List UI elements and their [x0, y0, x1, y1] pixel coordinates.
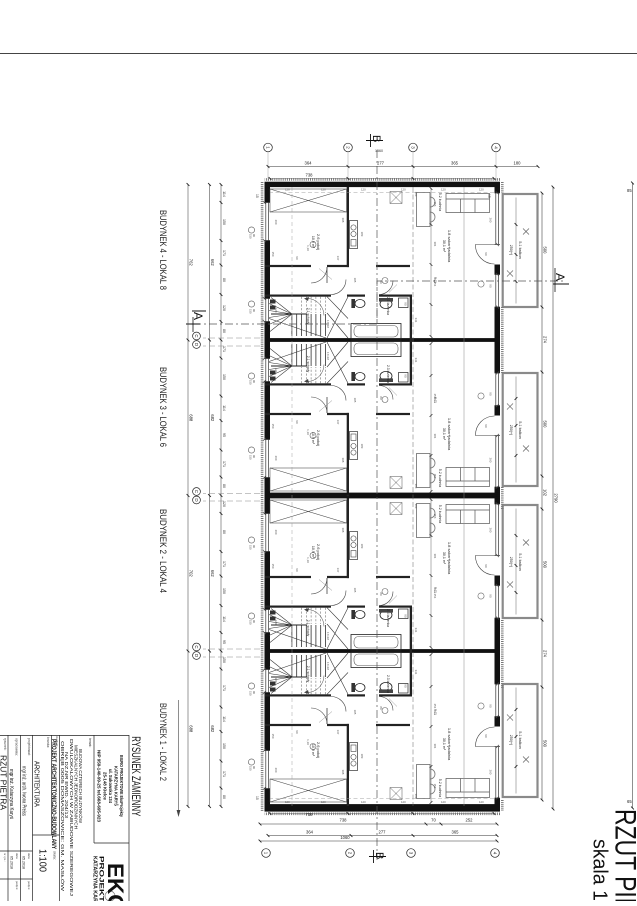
svg-text:120: 120 [222, 501, 226, 507]
svg-text:90: 90 [484, 734, 488, 738]
svg-text:105: 105 [353, 588, 357, 593]
gable inner dash lines [270, 798, 494, 800]
svg-text:branża:: branża: [46, 737, 50, 748]
svg-text:mgr inż. Katarzyna Karyś: mgr inż. Katarzyna Karyś [8, 769, 14, 819]
svg-text:15: 15 [255, 796, 259, 800]
svg-text:120: 120 [321, 800, 326, 804]
svg-text:171: 171 [222, 461, 226, 467]
svg-text:90: 90 [489, 284, 493, 288]
svg-text:2.1 schody: 2.1 schody [306, 666, 310, 683]
svg-text:163: 163 [414, 192, 418, 197]
svg-text:90: 90 [252, 545, 256, 548]
svg-text:171: 171 [222, 771, 226, 777]
svg-text:150: 150 [249, 380, 253, 385]
svg-text:10,9 m²: 10,9 m² [311, 432, 315, 445]
svg-text:250(+): 250(+) [509, 245, 513, 256]
svg-text:90: 90 [484, 424, 488, 428]
svg-text:EKO: EKO [103, 863, 128, 901]
svg-text:277: 277 [379, 829, 387, 834]
svg-text:250(+): 250(+) [509, 735, 513, 746]
svg-text:95: 95 [222, 433, 226, 437]
svg-text:5.1 balkon: 5.1 balkon [518, 421, 522, 439]
svg-text:05.2018: 05.2018 [22, 856, 26, 869]
svg-text:120: 120 [361, 188, 366, 192]
svg-text:150: 150 [222, 657, 226, 663]
svg-text:150: 150 [271, 564, 275, 569]
svg-text:137: 137 [336, 568, 340, 573]
svg-text:2.3 łazienka: 2.3 łazienka [386, 609, 390, 627]
svg-text:90: 90 [404, 684, 408, 688]
svg-text:163: 163 [414, 504, 418, 509]
svg-text:1060: 1060 [340, 835, 350, 840]
svg-text:662: 662 [210, 570, 215, 578]
svg-text:10,9 m²: 10,9 m² [311, 744, 315, 757]
svg-text:1,10: 1,10 [306, 739, 310, 745]
grid bubble pair CD wall1 [193, 332, 201, 340]
gable wall left [265, 182, 501, 187]
svg-text:1,10: 1,10 [306, 245, 310, 251]
svg-text:150: 150 [249, 455, 253, 460]
svg-text:podpis:: podpis: [15, 881, 19, 890]
svg-text:738: 738 [306, 172, 314, 177]
grid bubble pair wall3 [193, 643, 201, 651]
arrow leader bottom right [178, 700, 180, 814]
svg-text:1:100: 1:100 [37, 849, 49, 872]
svg-text:114: 114 [222, 405, 226, 411]
dim chain inside right gable [270, 813, 494, 815]
svg-text:2.6 pokój: 2.6 pokój [316, 544, 321, 560]
grid bubble pair wall2 [193, 488, 201, 496]
svg-text:150: 150 [271, 252, 275, 257]
svg-text:5.1 balkon: 5.1 balkon [518, 731, 522, 749]
svg-text:252: 252 [466, 818, 474, 823]
svg-text:308: 308 [341, 528, 345, 533]
insulation hatch bands [262, 179, 502, 813]
svg-text:10,9 m²: 10,9 m² [311, 236, 315, 249]
svg-text:RYSUNEK ZAMIENNY: RYSUNEK ZAMIENNY [129, 736, 141, 816]
svg-text:80: 80 [379, 592, 383, 596]
svg-text:682: 682 [210, 414, 215, 422]
svg-text:254: 254 [433, 282, 437, 287]
svg-text:70: 70 [431, 818, 436, 823]
svg-text:384: 384 [433, 242, 437, 247]
svg-text:temat:: temat: [88, 738, 92, 747]
svg-text:mgr inż. arch. Iwona Preiss: mgr inż. arch. Iwona Preiss [21, 766, 27, 816]
svg-text:662: 662 [210, 259, 215, 267]
svg-text:365: 365 [451, 160, 459, 165]
svg-text:120: 120 [274, 620, 278, 625]
svg-text:data:: data: [15, 853, 19, 859]
svg-text:90: 90 [484, 252, 488, 256]
roof line dash [412, 187, 414, 806]
svg-text:90: 90 [404, 374, 408, 378]
grid dash connectors below building [203, 338, 260, 657]
svg-text:260: 260 [489, 770, 493, 775]
svg-text:341: 341 [414, 670, 418, 675]
svg-text:120: 120 [285, 188, 290, 192]
svg-text:308: 308 [341, 458, 345, 463]
svg-text:260: 260 [274, 768, 278, 773]
svg-text:274: 274 [542, 336, 547, 344]
svg-text:105: 105 [353, 278, 357, 283]
svg-text:90: 90 [252, 309, 256, 312]
svg-text:90: 90 [404, 614, 408, 618]
svg-text:RZUT PIĘTRA: RZUT PIĘTRA [0, 755, 8, 811]
svg-text:137: 137 [336, 256, 340, 261]
svg-text:384: 384 [433, 554, 437, 559]
svg-text:341: 341 [414, 628, 418, 633]
svg-text:90: 90 [295, 420, 299, 424]
svg-text:1.8 salon+jadalnia: 1.8 salon+jadalnia [447, 230, 452, 263]
svg-text:90: 90 [489, 594, 493, 598]
svg-text:BUDYNEK 1 - LOKAL 2: BUDYNEK 1 - LOKAL 2 [157, 703, 168, 781]
gable wall right [265, 806, 501, 812]
svg-text:738: 738 [306, 812, 314, 817]
svg-text:260: 260 [274, 530, 278, 535]
svg-text:137: 137 [336, 420, 340, 425]
svg-text:80: 80 [222, 484, 226, 488]
svg-text:114: 114 [222, 191, 226, 197]
svg-text:150: 150 [249, 766, 253, 771]
svg-text:80: 80 [222, 530, 226, 534]
svg-text:120: 120 [285, 800, 290, 804]
svg-text:2.3 łazienka: 2.3 łazienka [386, 365, 390, 383]
svg-text:80: 80 [379, 280, 383, 284]
svg-text:120: 120 [479, 188, 484, 192]
svg-text:95: 95 [222, 640, 226, 644]
svg-text:2.6 pokój: 2.6 pokój [316, 234, 321, 250]
svg-text:90: 90 [404, 302, 408, 306]
svg-text:90: 90 [252, 455, 256, 458]
svg-text:skala:: skala: [53, 851, 57, 860]
room labels unit at 340.0 mirrored [271, 352, 522, 489]
svg-text:1,10: 1,10 [306, 557, 310, 563]
svg-text:1.8 salon+jadalnia: 1.8 salon+jadalnia [447, 728, 452, 761]
svg-text:171: 171 [222, 685, 226, 691]
svg-text:1.8 salon+jadalnia: 1.8 salon+jadalnia [447, 418, 452, 451]
svg-text:762: 762 [188, 259, 193, 267]
svg-text:274: 274 [542, 650, 547, 658]
svg-text:65: 65 [627, 799, 632, 804]
svg-text:688: 688 [188, 414, 193, 422]
unit BUDYNEK2 lokal4 [263, 496, 538, 652]
grid bubbles left [264, 143, 273, 152]
svg-text:90: 90 [489, 704, 493, 708]
svg-text:ARCHITEKTURA: ARCHITEKTURA [33, 761, 40, 807]
svg-text:120: 120 [441, 800, 446, 804]
svg-text:364: 364 [305, 160, 313, 165]
svg-text:189: 189 [360, 754, 364, 759]
svg-text:171: 171 [222, 346, 226, 352]
svg-text:500: 500 [542, 247, 547, 255]
svg-text:1,10: 1,10 [306, 429, 310, 435]
svg-text:260: 260 [274, 220, 278, 225]
svg-text:254: 254 [433, 594, 437, 599]
svg-text:1.8 salon+jadalnia: 1.8 salon+jadalnia [447, 542, 452, 575]
svg-text:OBRĘB 0005 DOMASZOWICE: GM. MA: OBRĘB 0005 DOMASZOWICE: GM. MASŁÓW [59, 741, 66, 892]
svg-text:250(+): 250(+) [509, 557, 513, 568]
svg-text:150: 150 [249, 309, 253, 314]
svg-text:180: 180 [514, 160, 522, 165]
svg-text:150: 150 [222, 219, 226, 225]
svg-text:BUDYNEK 4 - LOKAL 8: BUDYNEK 4 - LOKAL 8 [157, 210, 168, 290]
svg-text:RZUT PIĘTRA: RZUT PIĘTRA [609, 809, 637, 901]
svg-text:15: 15 [255, 194, 259, 198]
svg-text:500: 500 [542, 421, 547, 429]
svg-text:120: 120 [361, 800, 366, 804]
svg-text:2.1 schody: 2.1 schody [306, 356, 310, 373]
svg-text:NIP 959-140-99-25 tel.668-695: NIP 959-140-99-25 tel.668-695-923 [97, 750, 102, 823]
title block frame [0, 735, 129, 901]
svg-text:05.2018: 05.2018 [10, 856, 14, 869]
svg-text:projektował:: projektował: [27, 738, 31, 756]
office info [97, 750, 125, 823]
svg-text:90: 90 [484, 564, 488, 568]
svg-text:80: 80 [379, 706, 383, 710]
unit BUDYNEK3 lokal6 [263, 340, 538, 496]
dim chain bottom total [187, 185, 189, 807]
svg-text:5.2 kuchnia: 5.2 kuchnia [438, 193, 442, 211]
svg-text:2.6 pokój: 2.6 pokój [316, 742, 321, 758]
svg-text:150: 150 [271, 734, 275, 739]
svg-text:15: 15 [487, 194, 491, 198]
svg-text:80: 80 [379, 396, 383, 400]
room labels unit at 495.5 [271, 504, 522, 641]
svg-text:308: 308 [341, 770, 345, 775]
dim chain outermost [632, 183, 634, 808]
svg-text:171: 171 [222, 561, 226, 567]
svg-text:1560: 1560 [375, 149, 383, 153]
svg-text:150: 150 [222, 743, 226, 749]
svg-text:384: 384 [433, 434, 437, 439]
svg-text:KATARZYNA KARYŚ: KATARZYNA KARYŚ [114, 766, 119, 806]
svg-text:skala 1:100: skala 1:100 [589, 839, 611, 901]
svg-text:941: 941 [433, 587, 437, 593]
svg-text:podpis:: podpis: [27, 881, 31, 890]
unit BUDYNEK4 lokal8 [263, 185, 538, 341]
svg-text:171: 171 [222, 250, 226, 256]
svg-text:120: 120 [441, 188, 446, 192]
expansion joint middle wall [265, 493, 501, 495]
svg-text:189: 189 [360, 544, 364, 549]
svg-text:2.1 schody: 2.1 schody [306, 620, 310, 637]
svg-text:120: 120 [321, 188, 326, 192]
logo emblem circle [105, 891, 115, 901]
dim chain bottom mid [209, 185, 211, 807]
svg-text:260: 260 [489, 528, 493, 533]
svg-text:120: 120 [274, 368, 278, 373]
svg-text:260: 260 [274, 456, 278, 461]
svg-text:data:: data: [27, 853, 31, 859]
roof line 1.90m solid [463, 187, 465, 806]
room labels unit at 184.5 [271, 192, 522, 329]
svg-text:90: 90 [252, 380, 256, 383]
svg-text:5.1 balkon: 5.1 balkon [518, 553, 522, 571]
grid bubbles right [262, 849, 271, 858]
svg-text:80: 80 [222, 329, 226, 333]
svg-text:10,9 m²: 10,9 m² [311, 546, 315, 559]
svg-text:90: 90 [489, 392, 493, 396]
svg-text:5.2 kuchnia: 5.2 kuchnia [438, 779, 442, 797]
dim chain right mid [268, 835, 497, 837]
svg-text:105: 105 [353, 710, 357, 715]
svg-text:5.1 balkon: 5.1 balkon [518, 241, 522, 259]
room labels unit at 651.0 mirrored [271, 662, 522, 799]
svg-text:BUDYNEK 3 - LOKAL 6: BUDYNEK 3 - LOKAL 6 [157, 367, 168, 447]
svg-text:5.2 kuchnia: 5.2 kuchnia [438, 505, 442, 523]
svg-text:80: 80 [222, 795, 226, 799]
svg-text:365: 365 [452, 829, 460, 834]
svg-text:114: 114 [222, 716, 226, 722]
svg-text:688: 688 [188, 725, 193, 733]
svg-text:17x18: 17x18 [326, 320, 330, 328]
svg-text:150: 150 [249, 691, 253, 696]
roof line bedroom dash [291, 187, 293, 806]
svg-text:150: 150 [222, 588, 226, 594]
svg-text:156: 156 [433, 784, 437, 789]
svg-text:120: 120 [401, 800, 406, 804]
svg-text:30,1 m²: 30,1 m² [442, 552, 446, 565]
svg-text:17x18: 17x18 [326, 662, 330, 670]
svg-text:150: 150 [249, 234, 253, 239]
svg-text:90: 90 [295, 256, 299, 260]
svg-text:500: 500 [542, 561, 547, 569]
svg-text:250(+): 250(+) [509, 425, 513, 436]
paper fold line [0, 53, 637, 55]
svg-text:150: 150 [271, 424, 275, 429]
svg-text:500: 500 [542, 740, 547, 748]
svg-text:90: 90 [252, 234, 256, 237]
svg-text:90: 90 [295, 730, 299, 734]
svg-text:90: 90 [252, 691, 256, 694]
svg-text:ul. Sukowska 134: ul. Sukowska 134 [108, 769, 113, 804]
svg-text:KATARZYNA KAR: KATARZYNA KAR [92, 856, 98, 901]
svg-text:150: 150 [249, 620, 253, 625]
svg-text:254: 254 [433, 704, 437, 709]
svg-text:120: 120 [274, 678, 278, 683]
dim chain right total [260, 840, 497, 842]
svg-text:189: 189 [360, 444, 364, 449]
svg-text:B: B [370, 135, 382, 142]
svg-text:277: 277 [377, 160, 385, 165]
svg-text:5.2 kuchnia: 5.2 kuchnia [438, 469, 442, 487]
dim chain top total [552, 187, 554, 809]
svg-text:364: 364 [306, 829, 314, 834]
svg-text:120: 120 [222, 305, 226, 311]
svg-text:189: 189 [360, 232, 364, 237]
svg-text:90: 90 [252, 766, 256, 769]
svg-text:90: 90 [252, 620, 256, 623]
svg-text:opracowała:: opracowała: [15, 738, 19, 756]
svg-text:2790: 2790 [553, 493, 558, 503]
unit BUDYNEK1 lokal2 [263, 651, 538, 807]
svg-text:163: 163 [414, 794, 418, 799]
svg-text:120: 120 [274, 308, 278, 313]
svg-text:137: 137 [336, 730, 340, 735]
svg-text:2.6 pokój: 2.6 pokój [316, 430, 321, 446]
svg-text:PROJEKT ARCHITEKTONICZNO-BUDOW: PROJEKT ARCHITEKTONICZNO-BUDOWLANY [50, 739, 57, 850]
svg-text:85: 85 [627, 188, 632, 193]
dim chain inside left gable [270, 178, 494, 180]
svg-text:114: 114 [222, 616, 226, 622]
svg-text:341: 341 [414, 358, 418, 363]
svg-text:941: 941 [433, 709, 437, 715]
svg-text:682: 682 [210, 725, 215, 733]
svg-text:30,1 m²: 30,1 m² [442, 428, 446, 441]
svg-text:254: 254 [433, 394, 437, 399]
svg-text:BIURO PROJEKTOWE EkoProjekty: BIURO PROJEKTOWE EkoProjekty [119, 755, 124, 817]
svg-text:156: 156 [433, 514, 437, 519]
section line A-A stepped [193, 281, 565, 324]
svg-text:156: 156 [433, 202, 437, 207]
svg-text:102: 102 [542, 489, 547, 497]
svg-text:PROJEKT: PROJEKT [98, 856, 105, 901]
svg-text:30,1 m²: 30,1 m² [442, 240, 446, 253]
dim chain bottom detail [220, 185, 222, 807]
section line B-B [376, 150, 378, 860]
svg-text:738: 738 [340, 818, 348, 823]
svg-text:80: 80 [222, 278, 226, 282]
dim chain right inner [260, 823, 497, 825]
svg-text:rysunek:: rysunek: [3, 738, 7, 751]
svg-text:308: 308 [341, 218, 345, 223]
svg-text:260: 260 [489, 458, 493, 463]
svg-text:2.3 łazienka: 2.3 łazienka [386, 675, 390, 693]
svg-text:BUDYNEK 2 - LOKAL 4: BUDYNEK 2 - LOKAL 4 [157, 509, 168, 594]
dim chain top balconies [541, 193, 543, 800]
svg-text:2.1 schody: 2.1 schody [306, 308, 310, 325]
svg-text:260: 260 [489, 218, 493, 223]
svg-text:25-148 Kielce: 25-148 Kielce [103, 772, 108, 801]
svg-text:702: 702 [188, 570, 193, 578]
svg-text:150: 150 [222, 374, 226, 380]
svg-text:384: 384 [433, 744, 437, 749]
svg-text:90: 90 [295, 568, 299, 572]
svg-text:17x18: 17x18 [326, 352, 330, 360]
svg-text:120: 120 [479, 800, 484, 804]
svg-text:341: 341 [414, 318, 418, 323]
svg-text:B: B [373, 852, 385, 859]
svg-text:17x18: 17x18 [326, 632, 330, 640]
svg-text:105: 105 [353, 398, 357, 403]
svg-text:120: 120 [401, 188, 406, 192]
svg-text:nr rys.:: nr rys.: [3, 853, 7, 862]
svg-text:163: 163 [414, 484, 418, 489]
svg-text:2.3 łazienka: 2.3 łazienka [386, 297, 390, 315]
svg-text:150: 150 [249, 545, 253, 550]
dim chain left [268, 166, 538, 168]
svg-text:156: 156 [433, 474, 437, 479]
svg-text:30,1 m²: 30,1 m² [442, 738, 446, 751]
